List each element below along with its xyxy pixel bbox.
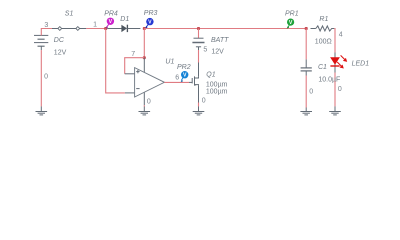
wire switch to junction node 1	[86, 28, 105, 30]
transistor Q1 NMOS	[189, 63, 199, 103]
DC source battery	[34, 35, 48, 50]
svg-text:V: V	[289, 20, 293, 26]
junction at BATT	[197, 27, 200, 30]
LED LED1	[330, 53, 347, 73]
svg-text:R1: R1	[319, 16, 328, 23]
wire C1 to ground	[305, 76, 307, 108]
svg-text:12V: 12V	[211, 49, 224, 56]
ground under LED1	[329, 106, 341, 115]
wire node 1 junction down to - input	[106, 29, 125, 93]
svg-text:100µm: 100µm	[206, 88, 228, 95]
svg-text:0: 0	[309, 88, 313, 95]
svg-text:6: 6	[175, 74, 179, 81]
svg-text:3: 3	[44, 22, 48, 29]
junction under PR4	[104, 27, 107, 30]
svg-text:0: 0	[338, 86, 342, 93]
svg-text:PR4: PR4	[104, 10, 118, 17]
probe PR2	[181, 71, 189, 82]
svg-text:V: V	[148, 20, 152, 26]
wire R1 to LED corner	[333, 29, 336, 53]
junction above C1	[305, 27, 308, 30]
svg-text:0: 0	[202, 97, 206, 104]
switch S1	[52, 27, 86, 31]
svg-text:100Ω: 100Ω	[315, 39, 332, 46]
svg-text:BATT: BATT	[211, 37, 229, 44]
probe PR1	[287, 19, 295, 29]
svg-text:12V: 12V	[54, 49, 67, 56]
svg-text:DC: DC	[54, 37, 65, 44]
capacitor C1	[301, 59, 312, 75]
wire LED1 to ground	[334, 73, 336, 107]
wire battery top to rail	[41, 29, 52, 36]
wire op-amp vs- to ground	[143, 105, 145, 106]
wire rail down to BATT	[198, 29, 200, 39]
probe PR3	[145, 18, 154, 29]
svg-text:D1: D1	[120, 16, 129, 23]
svg-text:7: 7	[131, 51, 135, 58]
ground under Q1	[193, 106, 205, 115]
op-amp U1	[125, 58, 165, 105]
diode D1	[107, 25, 140, 32]
svg-text:5: 5	[203, 46, 207, 53]
svg-text:PR1: PR1	[285, 10, 299, 17]
wire Q1 source to ground	[198, 103, 200, 107]
svg-text:0: 0	[147, 98, 151, 105]
svg-text:100µm: 100µm	[206, 81, 228, 88]
junction under PR3	[143, 27, 146, 30]
svg-text:LED1: LED1	[352, 60, 370, 67]
svg-text:PR2: PR2	[177, 64, 191, 71]
svg-text:S1: S1	[65, 10, 74, 17]
svg-text:V: V	[183, 73, 187, 79]
junction at node 7	[143, 56, 146, 59]
wire BATT to Q1 drain	[198, 50, 200, 63]
resistor R1	[311, 26, 335, 31]
wire battery bottom to ground	[40, 50, 42, 106]
svg-text:10.0µF: 10.0µF	[318, 76, 340, 83]
probe PR4	[106, 18, 115, 29]
svg-text:V: V	[109, 19, 113, 25]
svg-text:PR3: PR3	[144, 10, 158, 17]
wire rail to C1	[305, 29, 307, 60]
ground under C1	[300, 108, 312, 115]
ground left	[36, 106, 48, 115]
svg-text:0: 0	[44, 73, 48, 80]
wire junction down to loop	[143, 29, 145, 58]
battery BATT	[192, 38, 204, 50]
ground under op-amp	[139, 107, 151, 115]
wire output to Q1 gate	[164, 81, 189, 83]
svg-text:1: 1	[93, 22, 97, 29]
svg-text:Q1: Q1	[206, 72, 215, 79]
svg-text:U1: U1	[165, 58, 174, 65]
svg-text:4: 4	[339, 32, 343, 39]
svg-text:C1: C1	[318, 64, 327, 71]
wire rail PR3 to C1 junction	[144, 28, 306, 30]
wire loop to + input	[125, 58, 145, 74]
